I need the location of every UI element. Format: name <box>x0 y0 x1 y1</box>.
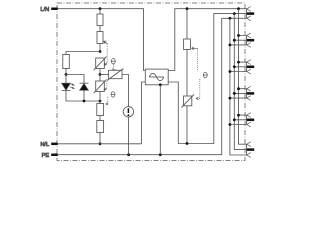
wire PE top row <box>222 17 247 19</box>
wire R6 to RV4 <box>186 50 188 97</box>
wire node A to R3 branch <box>66 52 100 55</box>
resistor R2 <box>97 32 103 44</box>
wire R2 to node A <box>99 44 101 52</box>
socket group 5 <box>229 113 255 127</box>
theta3 symbol <box>203 72 208 77</box>
varistor RV1 <box>94 56 107 70</box>
varistor RV4 <box>181 94 194 107</box>
node N/L bus <box>99 142 102 145</box>
node protected N / RV4 <box>186 142 189 145</box>
arrow onto R4 <box>106 103 108 105</box>
svg-text:PE: PE <box>42 153 50 159</box>
wire R1 chain top <box>99 9 101 14</box>
wire indicator to PE bus <box>128 117 130 155</box>
thermal arrow onto R6 <box>192 47 198 50</box>
svg-text:N/L: N/L <box>40 142 49 148</box>
resistor R5 <box>97 121 104 133</box>
wire RV4 branch top <box>186 9 188 39</box>
socket group 6 <box>247 142 255 158</box>
wire node C to RV3 <box>100 74 109 76</box>
wire RV2 to node D <box>99 92 101 102</box>
resistor R6 <box>184 39 191 50</box>
wire PE bus <box>58 18 222 154</box>
filter FL1 <box>145 69 168 85</box>
LED D1 <box>62 83 75 90</box>
enclosure border (dash-dot frame) <box>57 3 245 161</box>
terminal L/N <box>40 7 57 13</box>
thermal link theta3 <box>196 48 200 98</box>
arrow onto RV3 <box>113 68 116 70</box>
resistor R4 <box>97 104 104 116</box>
diode D2 <box>80 83 89 90</box>
wire R4-R5 <box>99 116 101 121</box>
resistor R3 <box>63 55 70 69</box>
wire filter right-bottom to protected N <box>168 14 247 144</box>
wire RV1-RV2 <box>99 75 101 82</box>
wire RV1 to node C <box>99 69 101 75</box>
terminal PE <box>42 153 58 159</box>
arrow onto RV2 <box>104 88 107 90</box>
indicator lamp H1 <box>123 107 133 117</box>
node bus/R1 <box>99 7 102 10</box>
socket group 3 <box>229 60 255 74</box>
theta1 symbol <box>111 59 116 64</box>
node A <box>99 50 102 53</box>
node PE feed top <box>229 17 232 20</box>
wire D2 bottom <box>83 90 85 101</box>
wire RV4 to protected N <box>186 106 188 144</box>
socket group 2 <box>229 33 255 47</box>
wire R5 to N/L bus <box>99 133 101 144</box>
wire N/L bus to filter left-bottom <box>58 82 145 144</box>
wire PE distribution <box>230 18 247 155</box>
node PE/filter center <box>159 153 162 156</box>
wire L/N bus to filter left-top <box>58 9 145 71</box>
node C <box>99 73 102 76</box>
node D2/bottom <box>83 100 86 103</box>
varistor RV3 <box>107 69 124 81</box>
varistor RV2 <box>94 79 107 93</box>
node filter bottom tap <box>159 83 162 86</box>
wire L distribution <box>239 9 247 145</box>
thermal arrow onto R2 <box>104 41 108 44</box>
wire node B to LED D1 <box>65 75 67 84</box>
wire filter center to PE <box>159 85 161 155</box>
node L feed top <box>237 7 240 10</box>
node protected L / RV4 branch <box>186 7 189 10</box>
theta2 symbol <box>111 92 116 97</box>
wire N distribution <box>234 14 247 150</box>
resistor R1 <box>97 14 103 26</box>
wire R3 to node B <box>65 69 67 75</box>
socket group 4 <box>229 86 255 100</box>
thermal link theta2 <box>106 81 108 104</box>
wire RV3 to indicator <box>122 75 129 107</box>
arrow onto RV1 <box>104 63 107 66</box>
wire filter right-top to protected L bus <box>168 9 246 71</box>
arrow onto RV4 <box>196 97 198 100</box>
wire node B to D2 <box>66 75 84 84</box>
node B <box>65 73 68 76</box>
wire node D to R4 <box>99 101 101 104</box>
wire R1-R2 <box>99 26 101 32</box>
socket group 1 <box>247 7 255 21</box>
terminal N/L <box>40 142 57 148</box>
node N feed top <box>233 12 236 15</box>
node PE/indicator <box>127 153 130 156</box>
wire LED bottom <box>66 90 100 101</box>
node chain/indicator return <box>99 100 102 103</box>
svg-text:L/N: L/N <box>40 7 49 13</box>
thermal link theta1 <box>107 44 113 70</box>
